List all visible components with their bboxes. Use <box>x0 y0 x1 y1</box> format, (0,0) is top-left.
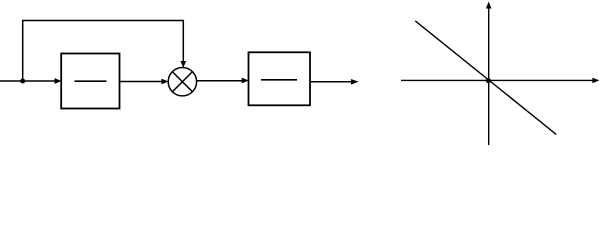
wire output line <box>310 81 352 83</box>
node junction dot <box>20 79 25 84</box>
graph horizontal axis arrowhead <box>592 78 599 84</box>
wire G1 to multiplier <box>120 81 162 83</box>
block G1 <box>61 54 119 109</box>
wire arrow into multiplier left <box>161 79 168 85</box>
value label dash in G1 <box>75 80 107 82</box>
multiplier X <box>172 72 192 92</box>
node origin dot <box>486 78 491 83</box>
graph diagonal line <box>415 21 556 134</box>
value label dash in G2 <box>261 79 297 81</box>
block G2 <box>249 52 311 105</box>
wire arrow into block G2 <box>242 78 249 84</box>
wire multiplier to block G2 <box>197 80 242 82</box>
wire output arrowhead <box>351 79 359 85</box>
graph vertical axis <box>488 8 490 145</box>
multiplier circle <box>168 68 196 96</box>
graph vertical axis arrowhead <box>486 2 492 9</box>
wire feedback path <box>23 21 184 82</box>
wire input line <box>0 80 56 82</box>
graph horizontal axis <box>401 79 593 81</box>
wire arrow into multiplier top <box>180 61 186 68</box>
wire arrow into block G1 <box>55 78 62 84</box>
